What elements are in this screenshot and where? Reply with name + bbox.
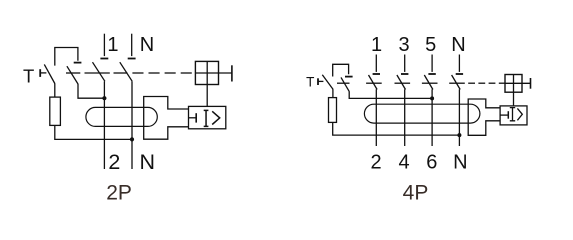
bypass pole contact bar bbox=[74, 62, 82, 64]
svg-text:N: N bbox=[453, 152, 467, 174]
trip unit I glyph (4P) bbox=[510, 108, 515, 121]
wire pole 3 to terminal 4 (4P) bbox=[404, 89, 406, 146]
wire bypass blade to pole-5 junction (4P) bbox=[349, 91, 431, 98]
wire pole 1 to terminal 2 (through CT) bbox=[103, 81, 105, 169]
resistor R1 bbox=[50, 97, 61, 125]
bypass pole contact bar (4P) bbox=[345, 76, 353, 78]
pole 3 lead (4P) bbox=[404, 55, 406, 72]
wire pole N to terminal N (4P) bbox=[458, 89, 460, 146]
wire test blade to resistor bbox=[54, 83, 56, 97]
pole 1 blade S2 bbox=[93, 62, 105, 81]
junction dot on pole-5 wire (4P) bbox=[430, 96, 434, 100]
test switch blade (4P) bbox=[322, 75, 333, 90]
pole N contact bar (4P) bbox=[456, 73, 463, 75]
test switch blade S0 bbox=[44, 64, 55, 83]
pole 1 contact bar (4P) bbox=[373, 73, 380, 75]
pole 5 contact bar (4P) bbox=[428, 73, 435, 75]
relay cross vertical line bbox=[206, 61, 208, 84]
wire test fixed contact / bypass top loop bbox=[55, 48, 78, 66]
mechanical trip dashed line (4P) bbox=[337, 82, 505, 84]
test button tick T1 bbox=[39, 69, 41, 77]
relay cross vertical line (4P) bbox=[513, 75, 515, 93]
pole N lead (4P) bbox=[458, 55, 460, 72]
wire resistor bottom to N junction bbox=[55, 125, 131, 139]
junction dot on pole N wire (4P bottom) bbox=[457, 133, 461, 137]
junction dot on N wire (2P bottom) bbox=[130, 137, 134, 141]
CT toroid core (4P) bbox=[364, 104, 480, 123]
pole 5 lead (4P) bbox=[431, 55, 433, 72]
pole N terminal lead (2P) bbox=[131, 34, 133, 56]
trip relay square K1 (2P) bbox=[195, 61, 218, 84]
svg-text:4: 4 bbox=[398, 152, 409, 174]
pole 1 lead (4P) bbox=[375, 55, 377, 72]
trip unit I glyph bbox=[204, 110, 209, 126]
svg-text:6: 6 bbox=[426, 152, 437, 174]
svg-text:1: 1 bbox=[371, 34, 382, 56]
relay cross horizontal line with right tick bbox=[195, 72, 232, 74]
resistor R2 (4P) bbox=[329, 98, 337, 123]
trip unit > chevron bbox=[212, 111, 220, 124]
svg-text:N: N bbox=[451, 34, 465, 56]
mechanical trip dashed line (2P) bbox=[66, 72, 192, 74]
trip unit input lead and tick bbox=[189, 117, 197, 119]
wire trip unit to relay square (2P) bbox=[206, 85, 208, 107]
wire test fixed contact / bypass top loop (4P) bbox=[333, 64, 349, 76]
wire pole N to terminal N (through CT) bbox=[131, 81, 133, 169]
svg-text:N: N bbox=[140, 34, 154, 56]
svg-text:2: 2 bbox=[108, 150, 120, 174]
trip unit > chevron (4P) bbox=[517, 108, 522, 120]
trip unit input lead and tick (4P) bbox=[500, 114, 508, 116]
svg-text:N: N bbox=[140, 150, 156, 174]
CT toroid core (2P) bbox=[86, 107, 157, 126]
wire bypass blade to pole-1 junction bbox=[78, 84, 103, 98]
trip unit box U1 (2P) bbox=[189, 106, 226, 128]
junction dot on pole-1 wire bbox=[102, 96, 106, 100]
pole N contact bar (2P) bbox=[128, 58, 136, 60]
wire pole 5 to terminal 6 (4P) bbox=[431, 89, 433, 146]
relay cross horizontal line with right tick (4P) bbox=[505, 82, 531, 84]
pole 5 blade (4P) bbox=[424, 75, 433, 90]
pole N blade (4P) bbox=[452, 75, 461, 90]
svg-text:1: 1 bbox=[107, 34, 118, 56]
wire pole 1 to terminal 2 (4P) bbox=[375, 89, 377, 146]
trip relay square K2 (4P) bbox=[505, 75, 522, 93]
wire T lead (4P) bbox=[318, 80, 323, 82]
svg-text:2P: 2P bbox=[106, 182, 132, 205]
pole 3 contact bar (4P) bbox=[401, 73, 408, 75]
pole 3 blade (4P) bbox=[397, 75, 406, 90]
svg-text:5: 5 bbox=[425, 34, 436, 56]
CT secondary winding clamp (2P) bbox=[144, 97, 189, 140]
wire resistor bottom to N junction (4P) bbox=[333, 122, 459, 135]
pole 1 contact bar bbox=[100, 58, 108, 60]
svg-text:2: 2 bbox=[370, 152, 381, 174]
svg-text:4P: 4P bbox=[403, 182, 429, 205]
pole N blade S3 bbox=[120, 62, 132, 81]
pole 1 terminal lead bbox=[103, 34, 105, 56]
svg-text:3: 3 bbox=[398, 34, 409, 56]
wire test blade to resistor (4P) bbox=[332, 89, 334, 98]
test button tick (4P) bbox=[317, 78, 319, 85]
wire trip unit to relay square (4P) bbox=[513, 92, 515, 106]
wire T lead bbox=[40, 72, 46, 74]
svg-text:T: T bbox=[23, 65, 34, 86]
bypass pole blade S1 bbox=[67, 66, 78, 84]
svg-text:T: T bbox=[306, 75, 314, 90]
bypass pole blade (4P) bbox=[341, 77, 349, 91]
CT secondary winding clamp (4P) bbox=[468, 99, 500, 135]
pole 1 blade (4P) bbox=[369, 75, 378, 90]
trip unit box U2 (4P) bbox=[500, 106, 527, 125]
